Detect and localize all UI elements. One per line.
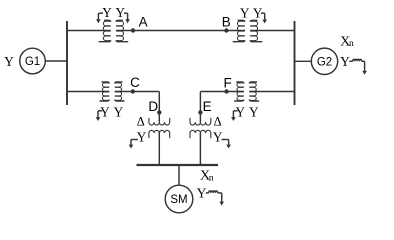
transformer T1 primary top lead <box>104 20 111 22</box>
transformer T5 primary top lead <box>236 82 244 84</box>
node C junction dot <box>131 89 135 93</box>
transformer T6 delta winding <box>190 118 211 125</box>
ground corner T6 <box>222 139 229 141</box>
svg-text:Y: Y <box>116 5 126 20</box>
node B junction dot <box>224 28 228 32</box>
synchronous motor SM <box>165 185 193 213</box>
transformer T4 delta winding <box>149 118 170 125</box>
wire T5 to corner above E <box>200 91 243 93</box>
ground arrow SM neutral <box>221 193 223 202</box>
grounding reactor SM <box>206 192 209 194</box>
svg-text:Y: Y <box>340 54 350 69</box>
transformer T5 secondary bottom lead <box>249 100 259 102</box>
transformer T5 primary winding <box>237 83 244 100</box>
transformer T1 primary bottom lead <box>99 40 111 42</box>
transformer T3 secondary winding <box>115 83 122 100</box>
transformer T5 secondary winding <box>249 83 256 100</box>
wire right bus to G2 <box>295 60 312 62</box>
svg-text:Y: Y <box>102 5 112 20</box>
svg-text:Y: Y <box>253 5 263 20</box>
transformer T2 primary winding <box>237 21 244 40</box>
transformer T1 secondary top lead <box>116 20 123 22</box>
ground arrow T2 secondary <box>264 13 266 20</box>
transformer T3 secondary top lead <box>115 82 123 84</box>
grounding reactor G2 <box>349 60 353 62</box>
ground arrow G2 neutral <box>364 61 366 71</box>
ground arrow T5 <box>232 111 234 118</box>
ground arrow T1 secondary <box>127 13 129 20</box>
wire T3 to corner above D <box>115 91 160 93</box>
svg-text:G1: G1 <box>25 56 40 68</box>
svg-text:SM: SM <box>170 194 187 206</box>
svg-text:Y: Y <box>4 54 14 69</box>
svg-text:n: n <box>209 173 214 183</box>
node A junction dot <box>131 28 135 32</box>
svg-text:E: E <box>203 99 212 114</box>
svg-text:B: B <box>222 14 231 29</box>
svg-text:Δ: Δ <box>137 115 145 129</box>
wire corner down to transformer T6 <box>199 92 201 123</box>
bus left (vertical bus bar) <box>66 21 68 105</box>
svg-text:Y: Y <box>100 104 110 119</box>
wire left bus to transformer T3 <box>67 91 109 93</box>
generator G1 <box>20 48 46 74</box>
ground corner T4 <box>131 139 138 141</box>
svg-text:Y: Y <box>249 104 259 119</box>
wire T2 to right bus <box>250 30 294 32</box>
svg-text:C: C <box>130 75 140 90</box>
svg-text:Y: Y <box>137 130 147 145</box>
wire node A to node B <box>116 30 245 32</box>
ground corner T3 <box>98 110 102 112</box>
node E junction dot <box>198 110 202 114</box>
svg-text:G2: G2 <box>317 57 332 69</box>
transformer T5 primary bottom lead <box>234 100 244 102</box>
svg-text:Y: Y <box>236 104 246 119</box>
svg-text:Y: Y <box>114 104 124 119</box>
node F junction dot <box>224 89 228 93</box>
transformer T2 secondary winding <box>250 21 257 40</box>
transformer T1 primary winding <box>103 21 110 40</box>
ground arrow T4 <box>130 140 132 146</box>
wire motor bus to SM <box>178 165 180 185</box>
ground corner T1 primary <box>98 12 103 14</box>
ground corner T5 <box>233 110 237 112</box>
svg-text:F: F <box>223 76 231 91</box>
svg-text:Y: Y <box>240 5 250 20</box>
ground arrow T3 <box>97 111 99 118</box>
transformer T1 secondary winding <box>116 21 123 40</box>
transformer T5 secondary top lead <box>249 82 257 84</box>
ground corner T1 secondary <box>124 12 128 14</box>
transformer T1 secondary bottom lead <box>116 40 128 42</box>
bus right (vertical bus bar) <box>294 21 296 105</box>
svg-text:Y: Y <box>197 186 207 201</box>
wire left bus to transformer T1 <box>67 30 111 32</box>
bus motor (horizontal bus bar) <box>137 164 219 166</box>
transformer T2 secondary top lead <box>250 20 257 22</box>
svg-text:A: A <box>139 14 148 29</box>
wire T4 to motor bus <box>158 133 160 164</box>
svg-text:Δ: Δ <box>214 115 222 129</box>
svg-text:n: n <box>349 39 354 49</box>
generator G2 <box>311 48 337 74</box>
transformer T3 primary bottom lead <box>100 100 110 102</box>
wire G1 to left bus <box>45 60 67 62</box>
transformer T2 secondary bottom lead <box>250 40 262 42</box>
wire right bus to transformer T5 <box>249 91 294 93</box>
svg-text:Y: Y <box>213 130 223 145</box>
transformer T6 wye winding <box>190 130 211 138</box>
node D junction dot <box>157 110 161 114</box>
transformer T3 primary winding <box>102 83 109 100</box>
transformer T3 primary top lead <box>102 82 110 84</box>
transformer T3 secondary bottom lead <box>115 100 125 102</box>
ground corner T2 secondary <box>261 12 265 14</box>
ground arrow T6 <box>228 140 230 146</box>
wire corner down to transformer T4 <box>158 92 160 123</box>
transformer T4 wye winding <box>149 130 170 138</box>
transformer T2 primary bottom lead <box>233 40 245 42</box>
transformer T2 primary top lead <box>238 20 245 22</box>
svg-text:D: D <box>148 99 158 114</box>
wire T6 to motor bus <box>199 133 201 164</box>
ground arrow T1 primary <box>97 13 99 20</box>
